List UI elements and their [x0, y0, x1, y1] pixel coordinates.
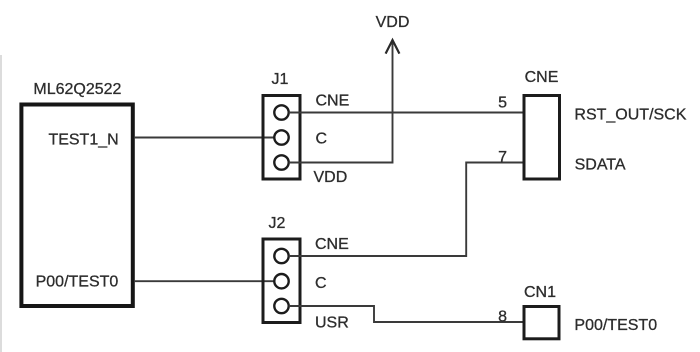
svg-text:J1: J1: [272, 71, 289, 88]
svg-text:C: C: [315, 275, 327, 292]
svg-text:SDATA: SDATA: [575, 156, 626, 173]
connector J1 pin 2 circle (C): [274, 130, 288, 144]
svg-text:8: 8: [498, 309, 507, 326]
frame edge line (left border of sheet): [0, 55, 2, 352]
svg-text:ML62Q2522: ML62Q2522: [33, 81, 121, 98]
wire net VDD from J1 pin3 up to VDD symbol: [289, 41, 393, 163]
connector J1 pin 1 circle (CNE): [274, 105, 288, 119]
wire net USR from J2 pin3 to CN1 pin 8: [289, 306, 524, 322]
svg-text:VDD: VDD: [376, 14, 410, 31]
connector J2 pin 1 circle (CNE): [274, 249, 288, 263]
svg-text:USR: USR: [315, 315, 349, 332]
svg-text:VDD: VDD: [314, 169, 348, 186]
connector J2 pin 3 circle (USR): [274, 299, 288, 313]
svg-text:CNE: CNE: [525, 69, 559, 86]
connector J2 pin 2 circle (C): [274, 274, 288, 288]
svg-text:CN1: CN1: [524, 284, 556, 301]
svg-text:CNE: CNE: [315, 236, 349, 253]
svg-text:TEST1_N: TEST1_N: [48, 131, 118, 148]
svg-text:P00/TEST0: P00/TEST0: [36, 274, 119, 291]
svg-text:RST_OUT/SCK: RST_OUT/SCK: [574, 107, 686, 124]
svg-text:CNE: CNE: [316, 93, 350, 110]
wire net P00/TEST0 from U1 to J2 pin C: [135, 280, 275, 282]
svg-text:C: C: [316, 131, 328, 148]
svg-text:P00/TEST0: P00/TEST0: [574, 317, 657, 334]
wire net CNE from J1 pin1 to CNE connector pin 5: [289, 112, 524, 114]
wire net from J2 pin1 (CNE) to CNE connector pin 7: [289, 163, 524, 257]
wire net TEST1_N from U1 to J1 pin C: [135, 137, 275, 139]
svg-text:J2: J2: [269, 215, 286, 232]
connector CNE body: [524, 96, 560, 180]
svg-text:5: 5: [498, 95, 507, 112]
connector J1 pin 3 circle (VDD): [274, 155, 288, 169]
connector J1 body: [263, 96, 300, 180]
power symbol VDD arrow head: [386, 40, 400, 54]
connector J2 body: [263, 239, 300, 323]
svg-text:7: 7: [498, 149, 507, 166]
connector CN1 body: [524, 307, 559, 339]
IC U1 ML62Q2522 body: [21, 105, 132, 307]
